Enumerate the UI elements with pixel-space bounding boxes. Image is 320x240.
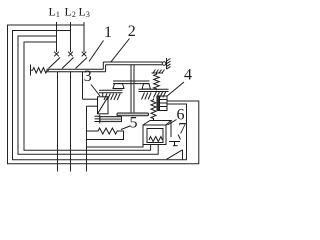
svg-text:L1: L1 (49, 5, 60, 20)
svg-text:5: 5 (130, 115, 138, 132)
svg-text:1: 1 (104, 24, 112, 41)
svg-text:L3: L3 (79, 5, 90, 20)
svg-text:7: 7 (178, 121, 186, 138)
svg-text:2: 2 (128, 23, 136, 40)
svg-text:3: 3 (84, 68, 92, 85)
svg-text:L2: L2 (65, 5, 76, 20)
svg-text:4: 4 (184, 67, 192, 84)
